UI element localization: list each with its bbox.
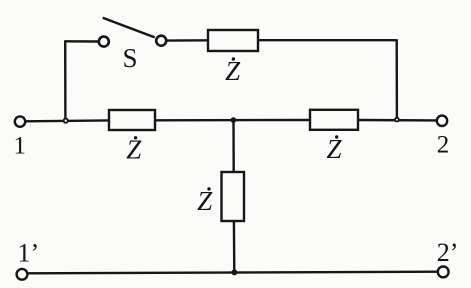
label Z-dot (top resistor) [225, 56, 241, 86]
wire: switch to top resistor [167, 39, 208, 42]
wire: top wire to switch left contact [64, 40, 98, 43]
label 1' [18, 239, 40, 268]
wire: terminal 1 to left resistor [26, 119, 109, 122]
terminal 1 [15, 116, 25, 126]
svg-text:2’: 2’ [437, 238, 459, 267]
label 2' [437, 238, 459, 267]
wire: bottom rail [27, 272, 437, 274]
switch S [99, 18, 166, 47]
node: bottom junction [231, 269, 237, 275]
node: right junction [395, 118, 399, 122]
node: center junction [231, 117, 237, 123]
terminal 2 [437, 116, 447, 126]
svg-text:1: 1 [14, 133, 27, 160]
node: junction at top-left riser base [64, 119, 68, 123]
svg-text:2: 2 [437, 132, 450, 159]
resistor Z (series right) [310, 110, 358, 130]
wire: left resistor to right resistor through center node [155, 119, 310, 122]
label S [122, 43, 137, 73]
svg-text:Z: Z [326, 134, 342, 164]
svg-text:S: S [122, 43, 137, 73]
svg-text:Z: Z [126, 135, 142, 165]
terminal 1' [17, 269, 28, 280]
wire: top-left vertical riser [64, 41, 67, 120]
resistor Z (series left) [109, 110, 155, 130]
label Z-dot (shunt resistor) [197, 186, 213, 216]
resistor Z (shunt, vertical) [222, 172, 245, 221]
label 1 [14, 133, 27, 160]
label Z-dot (left resistor) [126, 135, 142, 165]
wire: center node to shunt resistor [232, 120, 235, 172]
label 2 [437, 132, 450, 159]
svg-text:1’: 1’ [18, 239, 40, 268]
wire: shunt resistor to bottom rail [233, 221, 236, 273]
wire: right resistor to terminal 2 [358, 119, 437, 122]
wire: right vertical riser [396, 39, 399, 119]
resistor Z (top branch) [208, 30, 258, 51]
wire: top resistor to right riser [258, 39, 397, 41]
label Z-dot (right resistor) [326, 134, 342, 164]
svg-text:Z: Z [197, 186, 213, 216]
terminal 2' [438, 267, 449, 278]
